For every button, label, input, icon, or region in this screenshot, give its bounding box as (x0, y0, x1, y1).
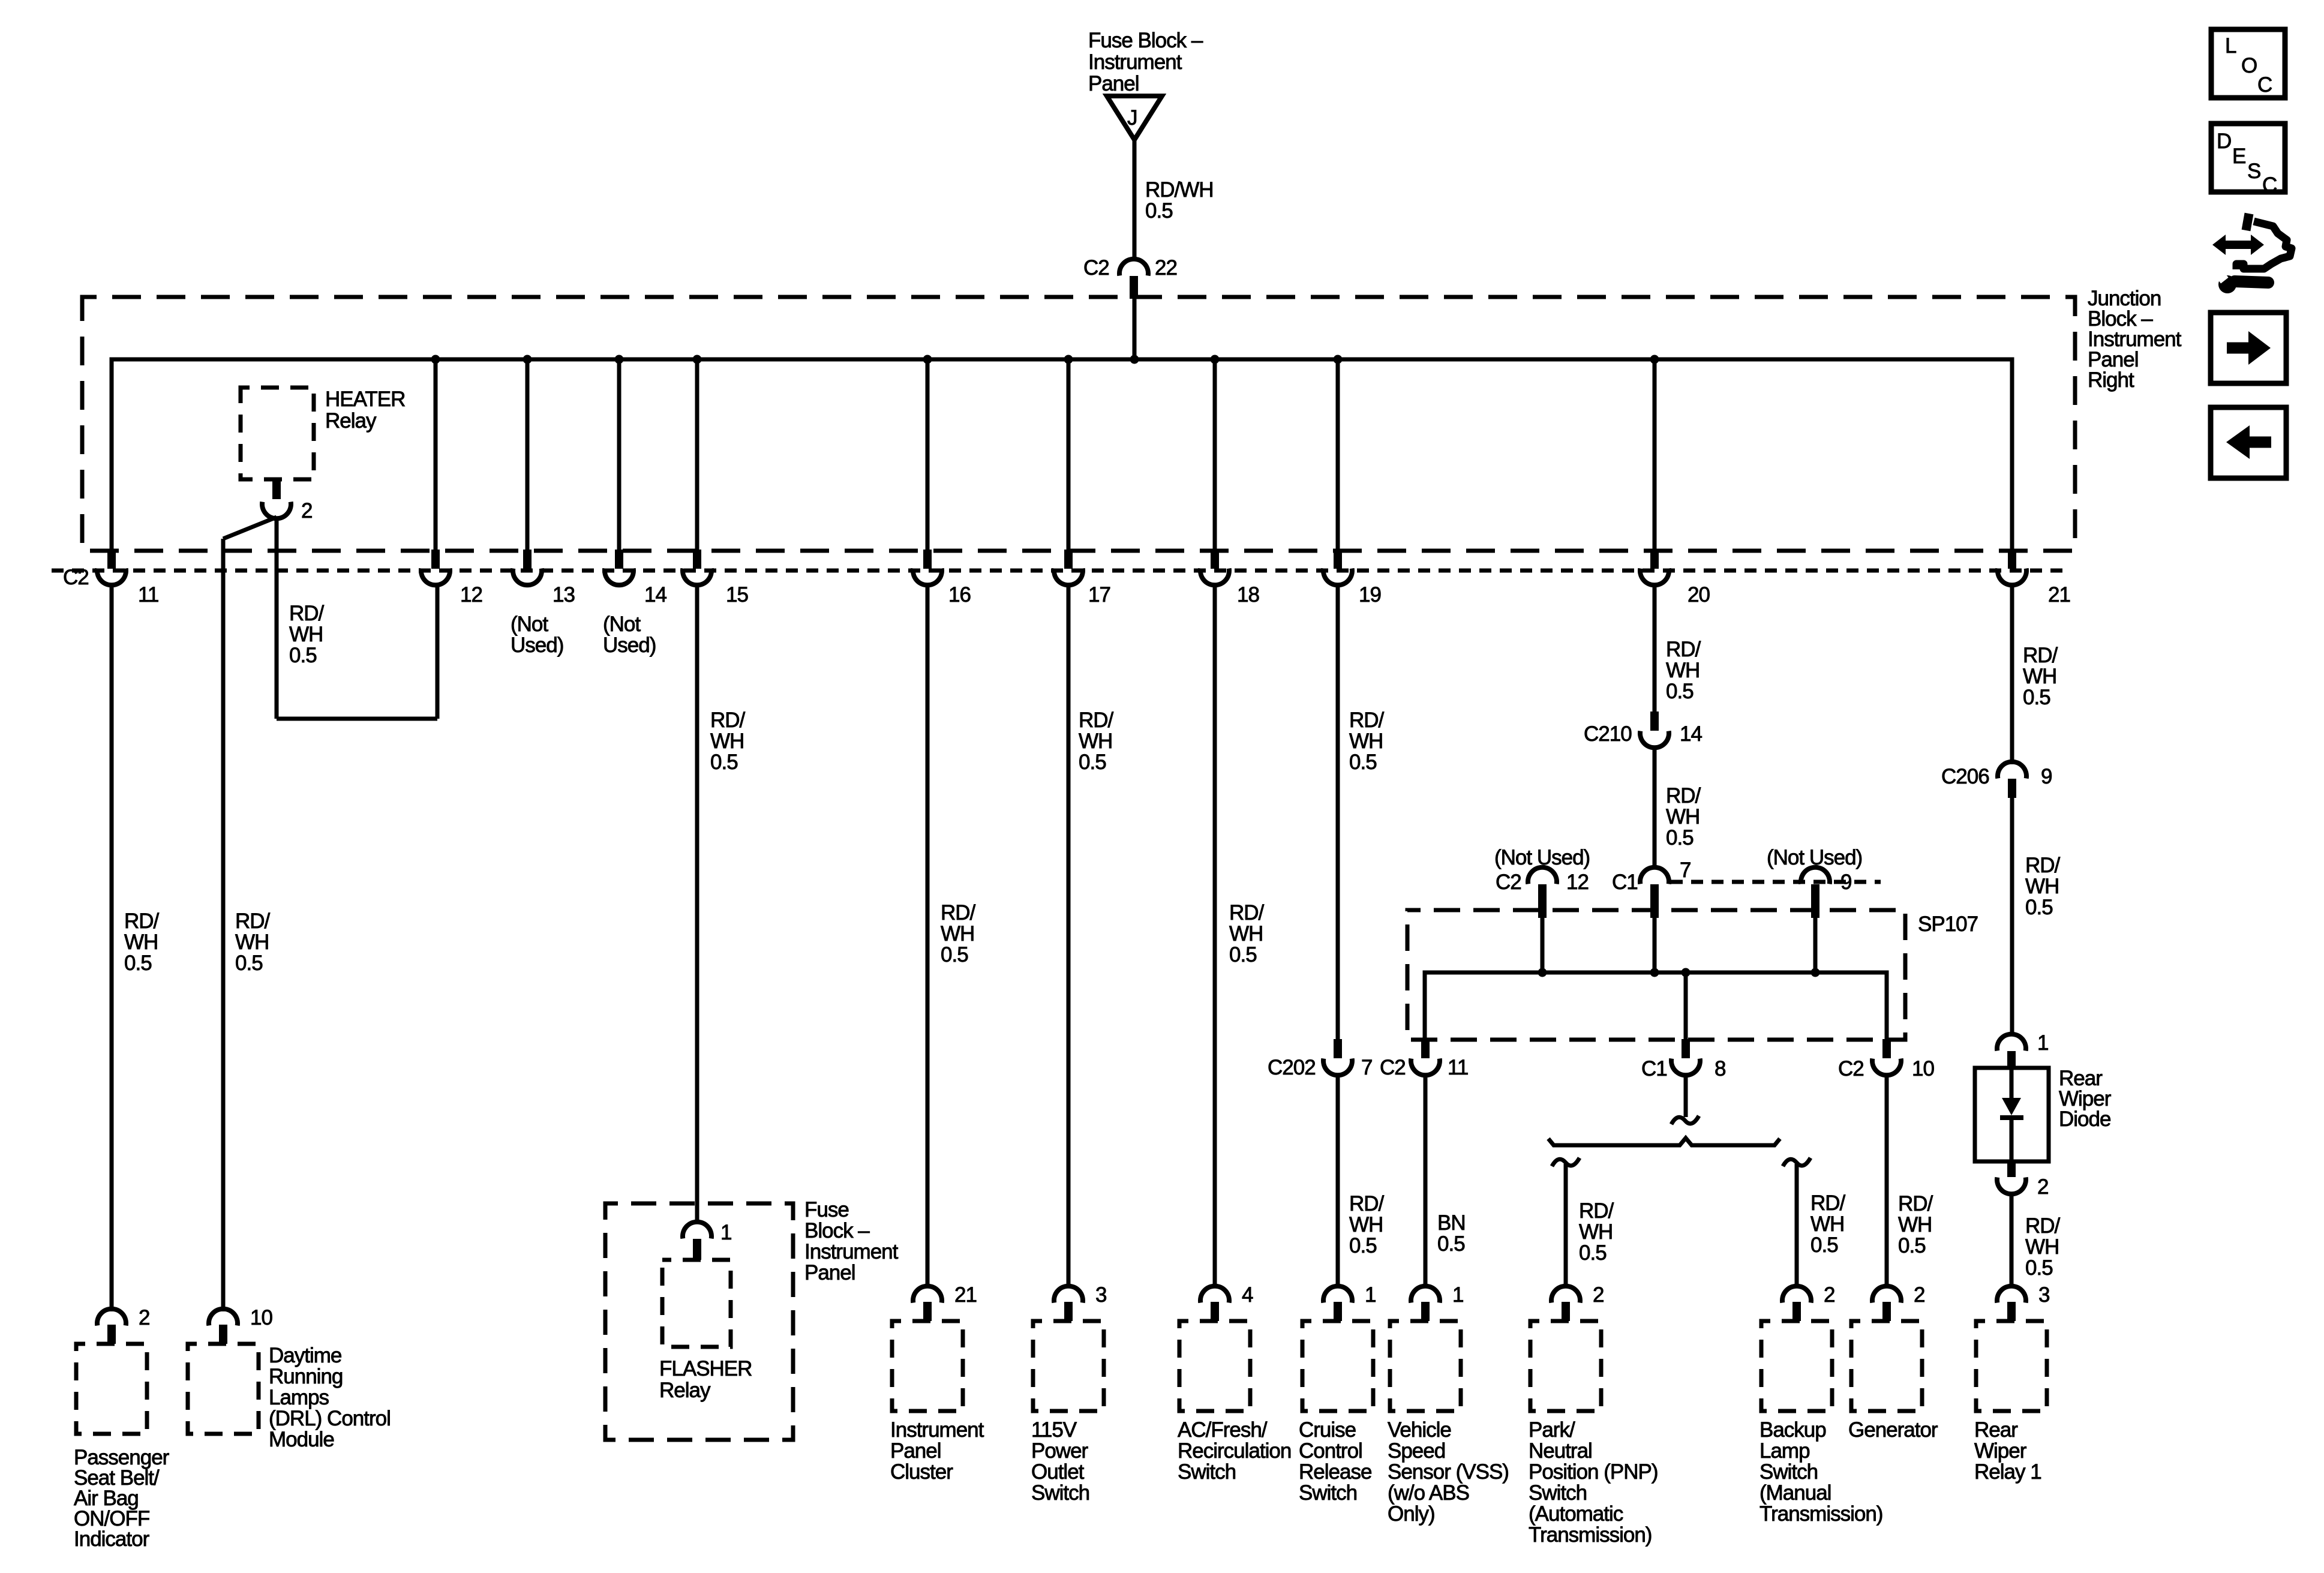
wire label RD/WH 0.5 (pin11) (124, 909, 160, 975)
wire heater pin2 down (275, 517, 279, 719)
bus drop wire to pin x726 (434, 359, 438, 550)
junction block pin 12 (421, 550, 482, 607)
connector C2 pin 10 (1838, 1039, 1934, 1080)
FLASHER relay (dashed box) (662, 1260, 731, 1347)
wire label BN 0.5 (VSS) (1437, 1211, 1466, 1256)
junction block - instrument panel right (dashed box) (82, 297, 2075, 551)
115V power outlet switch (1033, 1283, 1106, 1411)
wire heater pin2 diagonal to DRL drop (223, 517, 277, 539)
bus junction dot x879 (523, 355, 532, 364)
junction block internal bus (112, 359, 2012, 550)
connector C1 pin 7 (1612, 858, 1691, 918)
wire pin 20 to C210 (1653, 585, 1657, 714)
wire label RD/WH 0.5 (cruise) (1349, 1192, 1385, 1257)
wire heater loop up to pin 12 (436, 586, 440, 719)
SP107 dot 12 (1538, 968, 1547, 977)
wire label RD/WH 0.5 (heater-12) (289, 602, 325, 667)
connector face dotted line C1 (1671, 880, 1881, 884)
SP107 label (1918, 912, 1978, 936)
diode D1 (2000, 1068, 2023, 1161)
wire label RD/WH 0.5 (pin21) (2023, 644, 2058, 709)
DESC button (2211, 124, 2285, 197)
junction block pin 21 (1998, 550, 2070, 607)
LOC button (2211, 29, 2285, 98)
wire C2-22 into junction block (1133, 299, 1137, 360)
bus drop wire to pin x2025 (1213, 359, 1217, 550)
svg-text:12: 12 (460, 583, 482, 607)
bus junction dot x1032 (615, 355, 624, 364)
generator label (1848, 1418, 1938, 1442)
bus junction dot x1891 (1130, 355, 1139, 364)
vehicle speed sensor VSS label (1388, 1418, 1509, 1526)
svg-text:C2: C2 (63, 566, 89, 589)
wire from J to C2-22 (1133, 140, 1137, 260)
connector C210 pin 14 (1584, 712, 1702, 748)
wire heater loop bottom (277, 717, 437, 721)
svg-text:13: 13 (553, 583, 575, 607)
wire break squiggle C1-8 (1671, 1116, 1699, 1124)
svg-text:1: 1 (720, 1221, 731, 1244)
wire label RD/WH 0.5 (DRL) (235, 909, 271, 975)
wire C202 to cruise switch (1336, 1075, 1340, 1286)
svg-text:D: D (2217, 130, 2231, 153)
connector pin 9 (not used) (1767, 846, 1862, 918)
svg-text:3: 3 (2038, 1283, 2049, 1307)
junction block pin 11 (97, 550, 158, 607)
wire brace to PNP switch (1564, 1164, 1568, 1286)
junction block pin 14 (605, 550, 666, 607)
wire SP107 C2-11 to VSS (1424, 1075, 1428, 1286)
fuse block - instrument panel (dashed box) (605, 1203, 793, 1440)
split brace (1548, 1138, 1780, 1145)
cruise control release switch label (1299, 1418, 1371, 1505)
SP107 dot 7 (1650, 968, 1659, 977)
svg-text:S: S (2247, 160, 2260, 183)
pin 13 not used label (511, 613, 563, 657)
next-page button (2211, 313, 2286, 383)
backup lamp switch label (1759, 1418, 1882, 1526)
svg-text:16: 16 (948, 583, 971, 607)
svg-text:9: 9 (2041, 765, 2052, 788)
wire C206 to rear wiper diode (2010, 798, 2014, 1035)
svg-text:10: 10 (1912, 1057, 1934, 1080)
rear wiper diode pin 2 (1997, 1161, 2048, 1199)
wire label RD/WH 0.5 (C206-diode) (2025, 854, 2061, 919)
svg-text:BN0.5: BN0.5 (1437, 1211, 1466, 1256)
wire label RD/WH 0.5 (pin15) (710, 709, 746, 774)
bus junction dot x1781 (1064, 355, 1073, 364)
bus drop wire to pin x879 (526, 359, 530, 550)
wire label RD/WH 0.5 (PNP) (1579, 1199, 1614, 1265)
svg-text:C: C (2262, 173, 2277, 197)
FLASHER relay pin 1 (683, 1221, 731, 1260)
bus junction dot x726 (431, 355, 440, 364)
bus junction dot x1162 (693, 355, 702, 364)
svg-text:21: 21 (954, 1283, 977, 1307)
instrument panel cluster label (890, 1418, 984, 1484)
SP107 dot C1-8 (1682, 968, 1691, 977)
wire label RD/WH 0.5 (pin17) (1079, 709, 1114, 774)
svg-text:11: 11 (138, 583, 158, 607)
svg-text:O: O (2241, 54, 2257, 77)
SP107 dot 9 (1811, 968, 1820, 977)
wire break squiggle backup drop (1783, 1158, 1810, 1166)
svg-text:E: E (2232, 145, 2245, 168)
wire pin9 to SP107 bus (1813, 917, 1818, 972)
wire pin 19 to C202 (1336, 585, 1340, 1039)
park/neutral position PNP switch (1530, 1283, 1604, 1411)
svg-text:1: 1 (1452, 1283, 1463, 1307)
wire label RD/WH 0.5 (backup) (1810, 1191, 1846, 1257)
bus drop wire to pin x2230 (1336, 359, 1340, 550)
vehicle speed sensor VSS (1390, 1283, 1463, 1411)
off-page triangle J (Fuse Block - Instrument Panel) (1107, 96, 1162, 140)
svg-text:SP107: SP107 (1918, 912, 1978, 936)
wire label RD/WH 0.5 (rear wiper relay) (2025, 1214, 2061, 1280)
wire pin12 to SP107 bus (1541, 917, 1545, 972)
svg-text:3: 3 (1095, 1283, 1106, 1307)
connector C2 pin 11 (SP107) (1380, 1039, 1468, 1079)
rear wiper relay 1 (1976, 1283, 2049, 1411)
connector row C2 dotted line (52, 569, 2064, 573)
bus drop wire to pin x2758 (1653, 359, 1657, 550)
wire label RD/WH 0.5 (pin16) (941, 901, 976, 966)
rear wiper diode label (2059, 1067, 2112, 1131)
rear wiper diode pin 1 (1997, 1031, 2048, 1068)
rear wiper diode box (1975, 1068, 2049, 1161)
daytime running lamps DRL control module label (269, 1344, 391, 1451)
svg-text:2: 2 (1914, 1283, 1924, 1307)
power feed label Fuse Block - Instrument Panel (1088, 29, 1203, 95)
svg-text:C202: C202 (1268, 1056, 1316, 1079)
passenger seat belt/air bag on/off indicator (76, 1306, 149, 1434)
HEATER relay pin 2 (262, 479, 312, 523)
fuse block label (804, 1198, 899, 1284)
rear wiper relay 1 label (1974, 1418, 2041, 1484)
junction block pin 17 (1054, 550, 1110, 607)
splice pack SP107 (dashed box) (1407, 910, 1905, 1040)
svg-text:C1: C1 (1641, 1057, 1667, 1080)
svg-text:2: 2 (2037, 1175, 2048, 1199)
connector C1 pin 8 (1641, 1039, 1725, 1080)
svg-text:17: 17 (1088, 583, 1110, 607)
svg-text:22: 22 (1155, 256, 1177, 280)
svg-text:C1: C1 (1612, 870, 1638, 894)
AC/fresh/recirculation switch (1179, 1283, 1253, 1411)
svg-text:Generator: Generator (1848, 1418, 1938, 1442)
svg-text:7: 7 (1361, 1056, 1372, 1079)
junction block pin 20 (1640, 550, 1710, 607)
115V power outlet switch label (1031, 1418, 1089, 1505)
wire C1-8 down to split (1684, 1075, 1688, 1117)
wire label RD/WH 0.5 (C210-C1) (1666, 784, 1701, 849)
prev-page button (2211, 407, 2286, 478)
svg-text:14: 14 (644, 583, 666, 607)
wire pin 11 to passenger indicator (110, 585, 114, 1311)
cruise control release switch (1302, 1283, 1376, 1411)
svg-text:C206: C206 (1941, 765, 1989, 788)
pin 14 not used label (603, 613, 656, 657)
bus junction dot x1546 (923, 355, 932, 364)
bus drop wire to pin x1032 (617, 359, 621, 550)
bus junction dot x2230 (1334, 355, 1343, 364)
HEATER relay label (325, 388, 405, 433)
svg-text:C210: C210 (1584, 722, 1632, 746)
svg-text:2: 2 (139, 1306, 149, 1329)
vehicle service icon (2212, 214, 2292, 293)
svg-text:21: 21 (2048, 583, 2070, 607)
junction block pin 16 (913, 550, 971, 607)
svg-text:15: 15 (726, 583, 748, 607)
junction block pin 13 (513, 550, 575, 607)
svg-text:8: 8 (1715, 1057, 1725, 1080)
wire to DRL module (221, 539, 226, 1311)
wire label RD/WH 0.5 (generator) (1898, 1192, 1933, 1257)
park/neutral position PNP switch label (1529, 1418, 1658, 1547)
connector row label C2 (63, 566, 89, 589)
backup lamp switch (1761, 1283, 1834, 1411)
wire pin 21 to C206 (2010, 585, 2014, 764)
svg-text:C2: C2 (1083, 256, 1109, 280)
svg-text:19: 19 (1359, 583, 1381, 607)
SP107 drop to C1-8 (1684, 972, 1688, 1040)
wire pin7 to SP107 bus (1653, 917, 1657, 972)
wire pin 18 to AC switch (1213, 585, 1217, 1286)
svg-text:11: 11 (1448, 1056, 1468, 1079)
svg-text:2: 2 (1824, 1283, 1834, 1307)
AC/fresh/recirculation switch label (1178, 1418, 1291, 1484)
wire label RD/WH 0.5 (pin18) (1229, 901, 1265, 966)
bus junction dot x2758 (1650, 355, 1659, 364)
passenger seat belt/air bag on/off indicator label (74, 1446, 170, 1551)
wire brace to backup lamp switch (1795, 1164, 1799, 1286)
svg-text:1: 1 (1365, 1283, 1376, 1307)
junction block label (2088, 287, 2182, 392)
HEATER relay (dashed box) (241, 388, 314, 479)
connector C206 pin 9 (1941, 762, 2052, 798)
svg-text:C2: C2 (1496, 870, 1521, 894)
junction block pin 18 (1200, 550, 1259, 607)
wire break squiggle PNP drop (1552, 1158, 1580, 1166)
wire label RD/WH 0.5 (pin20) (1666, 638, 1701, 703)
svg-text:10: 10 (250, 1306, 272, 1329)
bus drop wire to pin x1781 (1067, 359, 1071, 550)
junction block pin 19 (1323, 550, 1381, 607)
svg-text:14: 14 (1680, 722, 1702, 746)
connector C2 pin 22 (1083, 256, 1177, 299)
svg-text:2: 2 (301, 499, 312, 523)
svg-text:C: C (2257, 73, 2272, 97)
wire label RD/WH 0.5 (1145, 178, 1214, 223)
bus junction dot x2025 (1211, 355, 1220, 364)
instrument panel cluster (892, 1283, 977, 1411)
wire C210 to C1-7 (1653, 748, 1657, 867)
wire C2-10 to generator (1885, 1075, 1889, 1286)
connector C2 pin 12 (not used) (1494, 846, 1590, 918)
FLASHER relay label (659, 1357, 752, 1402)
wire pin 17 to 115V outlet switch (1067, 585, 1071, 1286)
bus drop wire to pin x1546 (926, 359, 930, 550)
svg-text:J: J (1127, 106, 1137, 130)
wire diode to rear wiper relay (2010, 1194, 2014, 1286)
junction block pin 15 (683, 550, 748, 607)
generator (1851, 1283, 1924, 1411)
svg-text:7: 7 (1680, 858, 1691, 882)
wire label RD/WH 0.5 (pin19) (1349, 709, 1385, 774)
svg-text:C2: C2 (1380, 1056, 1406, 1079)
svg-text:2: 2 (1593, 1283, 1604, 1307)
svg-text:C2: C2 (1838, 1057, 1864, 1080)
svg-text:12: 12 (1566, 870, 1589, 894)
svg-text:4: 4 (1242, 1283, 1253, 1307)
svg-text:L: L (2225, 34, 2236, 58)
svg-text:20: 20 (1688, 583, 1710, 607)
SP107 internal bus (1425, 972, 1887, 1040)
connector C202 pin 7 (1268, 1039, 1372, 1079)
wire pin 15 to flasher relay (695, 585, 699, 1223)
daytime running lamps DRL control module (188, 1306, 272, 1434)
bus drop wire to pin x1162 (695, 359, 699, 550)
wire pin 16 to instrument panel cluster (926, 585, 930, 1286)
svg-text:18: 18 (1237, 583, 1259, 607)
svg-text:1: 1 (2037, 1031, 2048, 1055)
